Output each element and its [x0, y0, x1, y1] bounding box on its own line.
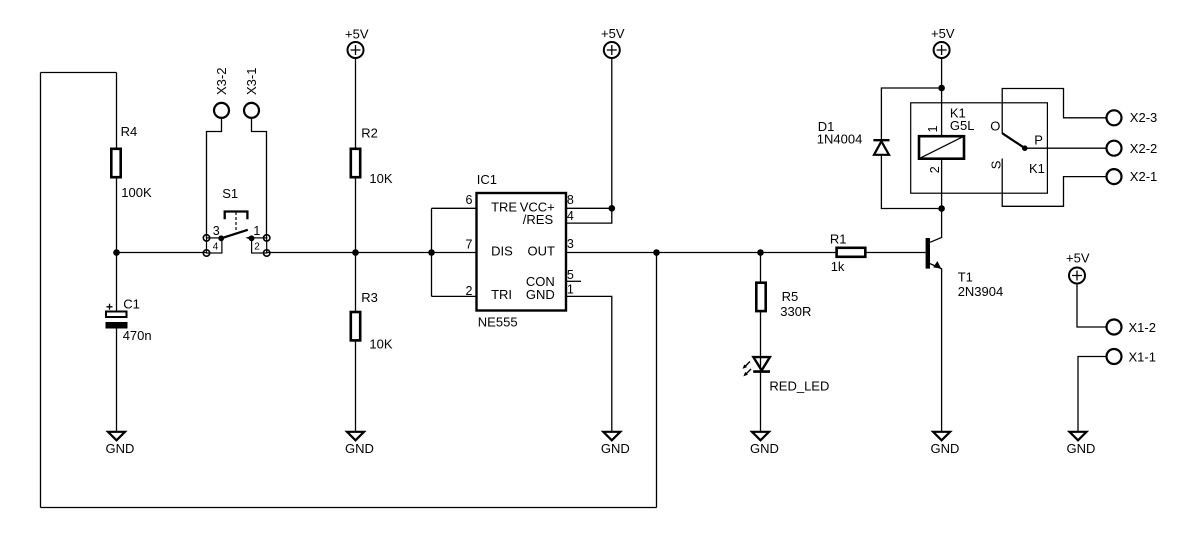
resistor R3 — [351, 290, 393, 352]
svg-text:R2: R2 — [361, 125, 378, 140]
connector pad X1-1 — [1107, 349, 1156, 365]
wire left side of feedback loop — [40, 73, 42, 508]
ground (below R3) — [345, 432, 374, 456]
relay K1 coil — [919, 106, 974, 174]
svg-text:GND: GND — [750, 441, 779, 456]
wire IC1 pin 6 — [432, 207, 477, 209]
svg-text:X1-2: X1-2 — [1129, 320, 1156, 335]
node junction OUT/feedback — [653, 249, 660, 256]
resistor R2 — [351, 125, 393, 186]
wire R3 to ground — [355, 341, 357, 431]
svg-text:+5V: +5V — [345, 26, 369, 41]
op-amp IC1 NE555 body — [477, 172, 567, 330]
svg-text:GND: GND — [106, 441, 135, 456]
relay K1 contact — [988, 118, 1045, 176]
wire IC1 pin 1 to ground — [566, 296, 612, 431]
svg-text:7: 7 — [466, 238, 473, 252]
svg-text:X2-1: X2-1 — [1130, 169, 1157, 184]
svg-text:100K: 100K — [121, 185, 152, 200]
wire K1 contact S to X2-1 — [1002, 159, 1106, 207]
wire IC1 pin 5 stub — [566, 280, 581, 282]
wire D1 bottom branch — [881, 155, 941, 209]
svg-text:10K: 10K — [369, 337, 392, 352]
svg-text:5: 5 — [567, 268, 574, 282]
node junction R4/C1/S1 — [113, 249, 120, 256]
svg-text:OUT: OUT — [528, 244, 556, 259]
wire C1 to ground — [116, 328, 118, 432]
svg-text:G5L: G5L — [950, 118, 975, 133]
svg-text:X2-3: X2-3 — [1130, 110, 1157, 125]
ground (below LED) — [750, 432, 779, 456]
power +5V (X1 branch) — [1066, 251, 1090, 284]
resistor R4 — [111, 124, 152, 200]
svg-text:6: 6 — [466, 193, 473, 207]
ground (below IC1 pin 1) — [601, 432, 630, 456]
switch S1 — [203, 186, 270, 256]
resistor R1 — [830, 232, 865, 275]
wire R5 to LED — [760, 312, 762, 371]
wire S1 pin 2 to IC1 pin 7 — [267, 252, 477, 254]
svg-text:DIS: DIS — [491, 244, 513, 259]
svg-text:330R: 330R — [780, 304, 811, 319]
wire R4 top lead — [116, 73, 118, 148]
svg-text:TRI: TRI — [491, 287, 512, 302]
svg-text:/RES: /RES — [523, 212, 554, 227]
svg-text:R3: R3 — [361, 290, 378, 305]
wire R1 to T1 base — [866, 252, 925, 254]
svg-text:2: 2 — [928, 166, 942, 173]
wire T1 collector — [930, 209, 942, 243]
svg-text:10K: 10K — [369, 171, 392, 186]
svg-text:GND: GND — [526, 287, 555, 302]
wire D1 top branch — [881, 88, 941, 140]
wire IC1 pin 4 /RES — [566, 208, 612, 223]
svg-text:4: 4 — [567, 209, 574, 223]
svg-text:C1: C1 — [123, 297, 140, 312]
svg-text:X3-2: X3-2 — [214, 68, 229, 95]
connector pad X3-2 — [214, 68, 229, 118]
wire X3-1 to S1 pin 1 — [252, 118, 267, 238]
wire right side of feedback loop — [656, 253, 658, 508]
wire R4 bottom lead — [116, 178, 118, 252]
node junction coil/D1/collector — [938, 205, 945, 212]
svg-text:470n: 470n — [123, 328, 152, 343]
wire LED to ground — [760, 372, 762, 432]
wire pin6 to pin2 vertical — [431, 208, 433, 296]
svg-text:GND: GND — [1067, 441, 1096, 456]
connector pad X2-3 — [1107, 110, 1158, 125]
svg-text:R1: R1 — [830, 232, 847, 247]
connector pad X3-1 — [244, 68, 259, 118]
wire R5 top lead — [760, 253, 762, 282]
node junction IC1 pins 6/7/2 — [428, 249, 435, 256]
wire OUT net — [566, 252, 836, 254]
wire top-left feedback — [41, 72, 117, 74]
wire bottom feedback loop — [41, 507, 657, 509]
svg-text:4: 4 — [213, 242, 219, 253]
relay K1 symbol box — [911, 103, 1048, 193]
wire +5V to X1-2 — [1077, 284, 1106, 328]
ground (below C1) — [106, 432, 135, 456]
connector pad X2-2 — [1107, 141, 1158, 157]
svg-text:X1-1: X1-1 — [1129, 350, 1156, 365]
LED RED_LED — [743, 357, 830, 394]
svg-text:1: 1 — [253, 224, 260, 238]
svg-text:1: 1 — [567, 283, 574, 297]
connector pad X1-2 — [1107, 320, 1156, 336]
svg-text:TRE: TRE — [491, 200, 517, 215]
wire IC1 pin 2 — [432, 295, 477, 297]
power +5V (above IC1) — [601, 26, 625, 58]
node junction +5V/D1/coil — [938, 85, 945, 92]
svg-text:GND: GND — [931, 441, 960, 456]
wire K1 contact O to X2-3 — [1002, 89, 1106, 134]
node junction OUT/R5 — [757, 249, 764, 256]
svg-text:2: 2 — [466, 284, 473, 298]
svg-text:P: P — [1034, 132, 1043, 147]
wire T1 emitter to ground — [930, 264, 942, 432]
svg-text:3: 3 — [567, 237, 574, 251]
svg-text:+5V: +5V — [1066, 251, 1090, 266]
node junction R2/R3 — [352, 249, 359, 256]
svg-text:2N3904: 2N3904 — [958, 284, 1004, 299]
svg-text:R4: R4 — [121, 124, 138, 139]
svg-text:+5V: +5V — [931, 26, 955, 41]
ground (below T1 emitter) — [931, 432, 960, 456]
svg-text:1N4004: 1N4004 — [817, 131, 863, 146]
wire +5V drop to pin 8 — [611, 59, 613, 209]
transistor T1 2N3904 — [926, 238, 1004, 299]
svg-text:2: 2 — [254, 242, 260, 253]
wire C1 top lead — [116, 253, 118, 312]
svg-text:+5V: +5V — [601, 26, 625, 41]
connector pad X2-1 — [1107, 169, 1158, 184]
svg-text:1: 1 — [926, 126, 940, 133]
svg-text:GND: GND — [601, 441, 630, 456]
svg-text:IC1: IC1 — [477, 172, 497, 187]
svg-text:R5: R5 — [782, 289, 799, 304]
svg-text:O: O — [990, 118, 1000, 133]
svg-text:8: 8 — [567, 193, 574, 207]
wire +5V to K1 coil — [941, 59, 943, 137]
svg-text:K1: K1 — [1029, 161, 1045, 176]
wire IC1 pin 8 VCC — [566, 207, 612, 209]
svg-text:3: 3 — [213, 224, 220, 238]
diode D1 1N4004 — [817, 119, 890, 155]
wire node to R3 — [355, 253, 357, 311]
svg-text:S: S — [988, 160, 1003, 169]
wire +5V to R2 — [355, 59, 357, 148]
wire R2 to node — [355, 178, 357, 252]
wire K1 pole P to X2-2 — [1025, 147, 1107, 149]
ground (below X1-1) — [1067, 432, 1096, 456]
node junction pin8/pin4/+5V — [609, 205, 616, 212]
power +5V (above R2) — [345, 26, 369, 58]
wire node junction to S1 pin 4 — [117, 252, 207, 254]
svg-text:GND: GND — [345, 441, 374, 456]
power +5V (above K1) — [931, 26, 955, 58]
wire X1-1 to ground — [1078, 357, 1106, 432]
svg-text:S1: S1 — [222, 186, 238, 201]
svg-text:1k: 1k — [831, 259, 845, 274]
svg-text:T1: T1 — [958, 270, 973, 285]
wire K1 coil to collector node — [941, 159, 943, 209]
svg-text:NE555: NE555 — [478, 315, 518, 330]
svg-text:X3-1: X3-1 — [244, 68, 259, 95]
wire X3-2 to S1 pin 3 — [207, 118, 222, 238]
svg-text:RED_LED: RED_LED — [769, 379, 829, 394]
capacitor C1 — [106, 297, 152, 343]
resistor R5 — [756, 283, 811, 319]
svg-text:X2-2: X2-2 — [1130, 141, 1157, 156]
